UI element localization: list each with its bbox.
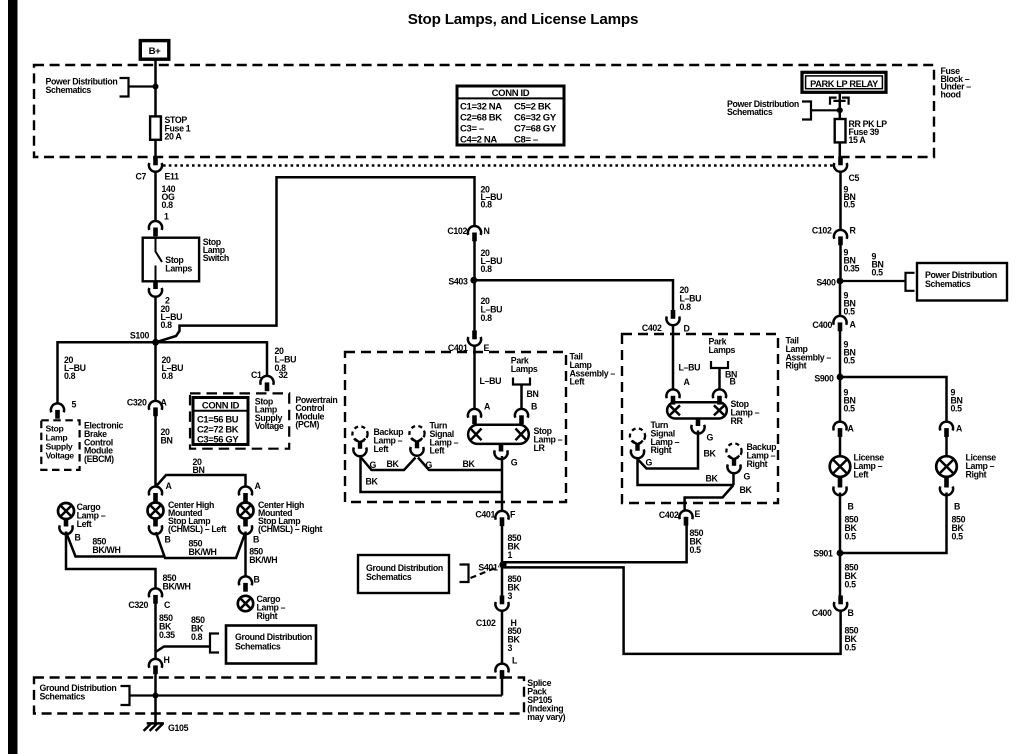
- svg-text:D: D: [684, 324, 690, 334]
- svg-text:BK: BK: [740, 485, 753, 495]
- wire C400 A to S900: [839, 331, 842, 377]
- connector pin 2: [149, 288, 162, 297]
- stop lamp RR ground stub: [696, 419, 701, 427]
- svg-text:S100: S100: [130, 331, 150, 341]
- svg-text:C402: C402: [659, 510, 679, 520]
- svg-text:850BK0.5: 850BK0.5: [952, 515, 966, 542]
- svg-text:BK: BK: [463, 459, 476, 469]
- turn signal lamp right (dashed): [630, 428, 645, 458]
- splice S400: [837, 278, 844, 285]
- svg-text:E11: E11: [165, 172, 180, 182]
- connector B CHMSL right: [239, 525, 252, 534]
- svg-text:C1=32 NAC2=68 BKC3= –C4=2 NA: C1=32 NAC2=68 BKC3= –C4=2 NA: [460, 102, 502, 146]
- wire park lamps to stop lamp B: [520, 385, 523, 410]
- svg-text:850BK3: 850BK3: [508, 574, 522, 601]
- lamp license left: [830, 456, 851, 477]
- svg-text:850BK3: 850BK3: [508, 626, 522, 653]
- wire ground bus to C402 E: [685, 485, 734, 511]
- park lamps feed bracket (left box): [513, 378, 530, 385]
- wire S100 to C102 N: [156, 177, 475, 342]
- svg-text:StopLamp –LR: StopLamp –LR: [534, 426, 563, 453]
- wire license right B to S901: [840, 493, 947, 554]
- connector C5: [834, 157, 847, 172]
- svg-text:CONN ID: CONN ID: [492, 88, 530, 99]
- svg-text:20L–BU0.8: 20L–BU0.8: [481, 185, 503, 210]
- svg-text:Center HighMountedStop Lamp(CH: Center HighMountedStop Lamp(CHMSL) – Lef…: [168, 500, 227, 534]
- wire A to license right lamp: [945, 437, 948, 457]
- svg-text:G105: G105: [168, 723, 189, 733]
- svg-text:L–BU: L–BU: [480, 376, 502, 386]
- svg-text:20L–BU0.8: 20L–BU0.8: [275, 346, 297, 373]
- svg-text:StopLamps: StopLamps: [165, 255, 192, 273]
- connector A CHMSL right: [239, 487, 252, 502]
- fuse RR PK LP Fuse 39 15A: [835, 119, 846, 142]
- svg-text:A: A: [956, 424, 963, 434]
- svg-text:F: F: [510, 510, 516, 520]
- svg-text:B: B: [954, 502, 960, 512]
- svg-text:A: A: [255, 481, 262, 491]
- dashed leader S401 to bracket: [471, 567, 500, 579]
- PCM CONN ID table: [193, 398, 248, 445]
- svg-text:5: 5: [72, 400, 77, 410]
- connector B cargo right: [239, 576, 252, 591]
- PCM dashed box: [190, 393, 289, 448]
- wire park lamps to stop lamp B: [718, 368, 721, 390]
- svg-text:BK: BK: [387, 459, 400, 469]
- connector B cargo left: [59, 525, 72, 534]
- svg-text:9BN0.5: 9BN0.5: [951, 388, 963, 414]
- svg-text:Power DistributionSchematics: Power DistributionSchematics: [727, 99, 799, 117]
- connector C401 E: [468, 331, 481, 346]
- wire S900 to license left A: [839, 377, 842, 422]
- svg-text:StopLampSupplyVoltage: StopLampSupplyVoltage: [46, 424, 75, 461]
- wire C102 N to S403: [473, 241, 476, 280]
- CONN ID table (underhood fuse block): [457, 86, 564, 146]
- svg-text:20BN: 20BN: [193, 457, 205, 475]
- svg-text:Ground DistributionSchematics: Ground DistributionSchematics: [235, 632, 312, 651]
- svg-text:A: A: [684, 377, 691, 387]
- wire S100 to EBCM pin 5: [58, 342, 156, 404]
- svg-text:1: 1: [164, 212, 169, 222]
- svg-text:850BK0.5: 850BK0.5: [690, 528, 704, 555]
- fuse block underhood dashed box: [34, 65, 934, 157]
- splice S403: [470, 277, 477, 284]
- svg-text:850BK0.5: 850BK0.5: [845, 563, 859, 590]
- connector C102 H: [495, 596, 508, 611]
- svg-text:20L–BU0.8: 20L–BU0.8: [680, 285, 702, 312]
- ground G105 symbol: [144, 723, 164, 731]
- wire C102 H to splice pack L: [501, 611, 504, 665]
- wire C320 C to H: [154, 604, 157, 660]
- svg-text:20L–BU0.8: 20L–BU0.8: [162, 355, 184, 381]
- stop lamp RR dual filament lamp: [667, 402, 727, 418]
- svg-text:9BN0.5: 9BN0.5: [844, 185, 856, 210]
- wire A to license left lamp: [839, 437, 842, 457]
- connector A stop lamp RR: [666, 389, 679, 404]
- connector pin 5 (EBCM): [51, 403, 64, 418]
- junction dot on relay feed: [837, 107, 843, 113]
- lamp license right: [936, 456, 957, 477]
- splice S901: [837, 550, 844, 557]
- wire S403 to C402 D: [474, 280, 673, 310]
- svg-text:850BK0.8: 850BK0.8: [191, 615, 205, 642]
- wire CHMSL left B to CHMSL right B bus: [156, 532, 246, 558]
- svg-text:TailLampAssembly –Right: TailLampAssembly –Right: [786, 336, 832, 371]
- svg-text:S400: S400: [816, 278, 836, 288]
- wire S901 to C400 B: [839, 553, 842, 596]
- turn signal lamp left (dashed): [409, 426, 424, 456]
- branch to ground distribution bracket: [156, 647, 211, 653]
- svg-text:BK: BK: [704, 449, 717, 459]
- connector C320 C: [149, 588, 162, 603]
- bracket ground distribution (mid): [210, 634, 219, 653]
- wire C402 E to S401 bus: [503, 526, 687, 563]
- switch pin 2 stub: [153, 281, 158, 289]
- wire H to G105: [154, 673, 157, 723]
- stop lamp switch blade: [156, 238, 163, 281]
- svg-text:C320: C320: [127, 398, 147, 408]
- wire stop G to C401 F: [501, 456, 504, 512]
- svg-text:TurnSignalLamp –Left: TurnSignalLamp –Left: [430, 421, 459, 456]
- svg-text:C5=2 BKC6=32 GYC7=68 GYC8= –: C5=2 BKC6=32 GYC7=68 GYC8= –: [514, 102, 557, 146]
- svg-text:BackupLamp –Left: BackupLamp –Left: [374, 427, 405, 454]
- junction dot G105 bus: [153, 693, 159, 699]
- svg-text:850BK0.35: 850BK0.35: [159, 613, 175, 640]
- connector C400 A: [833, 316, 846, 331]
- wire C320 A to CHMSL lamps: [156, 416, 246, 487]
- svg-text:N: N: [484, 226, 490, 236]
- tail lamp assembly left dashed box: [345, 352, 566, 502]
- wire cargo left B to ground bus: [66, 532, 165, 557]
- svg-text:R: R: [850, 226, 857, 236]
- svg-text:850BK1: 850BK1: [508, 533, 522, 560]
- svg-text:A: A: [161, 398, 168, 408]
- svg-text:B: B: [253, 535, 259, 545]
- svg-text:850BK/WH: 850BK/WH: [189, 539, 217, 558]
- svg-text:B: B: [254, 575, 260, 585]
- junction dot on B+ feed: [153, 84, 159, 90]
- svg-text:B: B: [75, 533, 81, 543]
- svg-text:20L–BU0.8: 20L–BU0.8: [64, 355, 86, 381]
- svg-text:850BK/WH: 850BK/WH: [163, 573, 191, 591]
- svg-text:C102: C102: [476, 618, 496, 628]
- connector C401 F: [495, 511, 508, 526]
- svg-text:ParkLamps: ParkLamps: [511, 356, 538, 374]
- svg-text:140OG0.8: 140OG0.8: [162, 184, 176, 210]
- bracket ground distribution (bottom): [121, 686, 130, 705]
- svg-text:Stop Lamps, and License Lamps: Stop Lamps, and License Lamps: [408, 11, 639, 28]
- relay pin terminals: [830, 98, 849, 105]
- svg-text:B: B: [531, 402, 537, 412]
- svg-text:C102: C102: [447, 226, 467, 236]
- svg-text:G: G: [511, 458, 518, 468]
- wire backup G to turn G (left box): [361, 458, 416, 471]
- CHMSL right lower stub: [243, 519, 248, 527]
- svg-text:Power DistributionSchematics: Power DistributionSchematics: [46, 77, 118, 95]
- svg-text:ElectronicBrakeControlModule(E: ElectronicBrakeControlModule(EBCM): [84, 421, 123, 465]
- ground distribution schematics box (mid): [226, 626, 316, 664]
- lamp CHMSL left: [148, 503, 164, 519]
- svg-text:S401: S401: [478, 563, 498, 573]
- svg-text:E: E: [484, 343, 490, 353]
- wire backup G to C401 F bus: [361, 456, 503, 492]
- svg-text:G: G: [707, 433, 714, 443]
- svg-text:E: E: [695, 509, 701, 519]
- backup lamp left (dashed): [352, 426, 367, 456]
- svg-text:ParkLamps: ParkLamps: [709, 337, 736, 355]
- park lamps feed bracket (right box): [711, 361, 728, 368]
- svg-text:9BN0.35: 9BN0.35: [844, 248, 860, 274]
- wire backup G down (right box): [732, 473, 735, 485]
- wire C401 F to S401: [501, 526, 504, 565]
- connector A license left: [833, 422, 846, 437]
- svg-text:BK: BK: [706, 474, 719, 484]
- connector B license right: [940, 486, 953, 495]
- connector C402 D: [666, 310, 679, 325]
- connector C102 N: [468, 226, 481, 241]
- svg-text:LicenseLamp –Right: LicenseLamp –Right: [966, 453, 997, 480]
- svg-text:StopLampSupplyVoltage: StopLampSupplyVoltage: [255, 397, 284, 432]
- svg-text:C1: C1: [251, 370, 262, 380]
- connector C7/E11: [149, 157, 162, 172]
- svg-text:G: G: [744, 472, 751, 482]
- svg-text:32: 32: [279, 370, 289, 380]
- connector G stop lamp RR: [691, 425, 704, 434]
- svg-text:850BK/WH: 850BK/WH: [249, 547, 277, 566]
- svg-text:PowertrainControlModule(PCM): PowertrainControlModule(PCM): [295, 395, 337, 430]
- CHMSL left lower stub: [153, 519, 158, 527]
- wire C5 to C102 R: [839, 172, 842, 231]
- wire license left B to S901: [839, 493, 842, 554]
- connector A stop lamp LR: [468, 409, 481, 424]
- lamp cargo left: [58, 503, 74, 519]
- connector C102 R: [834, 230, 847, 245]
- wire splice pack riser: [501, 678, 504, 696]
- cargo left lower stub: [64, 519, 69, 527]
- connector B stop lamp RR: [713, 389, 726, 404]
- svg-text:9BN0.5: 9BN0.5: [844, 388, 856, 414]
- svg-text:C400: C400: [812, 320, 832, 330]
- connector B stop lamp LR: [515, 409, 528, 424]
- wire CHMSL right B to cargo right B: [244, 532, 247, 578]
- license right lower stub: [944, 477, 949, 488]
- svg-text:C1=56 BUC2=72 BKC3=56 GY: C1=56 BUC2=72 BKC3=56 GY: [197, 413, 239, 444]
- connector C400 B: [834, 596, 847, 611]
- connector C320 A: [149, 401, 162, 416]
- stop lamp LR dual filament lamp: [468, 425, 529, 444]
- svg-text:A: A: [848, 424, 855, 434]
- connector A CHMSL left: [149, 487, 162, 502]
- svg-text:C320: C320: [128, 600, 148, 610]
- svg-text:PARK LP RELAY: PARK LP RELAY: [810, 79, 878, 89]
- wire S400 to C400 A: [839, 281, 842, 317]
- svg-text:850BK0.5: 850BK0.5: [845, 626, 859, 653]
- svg-text:A: A: [850, 320, 857, 330]
- svg-text:850BK0.5: 850BK0.5: [845, 515, 859, 542]
- stop lamp LR ground stub: [499, 444, 504, 452]
- svg-text:20BN: 20BN: [161, 427, 173, 445]
- svg-text:CargoLamp –Right: CargoLamp –Right: [257, 594, 286, 621]
- svg-text:C5: C5: [849, 173, 860, 183]
- svg-text:BK: BK: [366, 477, 379, 487]
- connector A license right: [940, 422, 953, 437]
- wire bracket to B+ feed: [129, 85, 156, 87]
- svg-text:LicenseLamp –Left: LicenseLamp –Left: [854, 453, 885, 480]
- svg-text:RR PK LPFuse 3915 A: RR PK LPFuse 3915 A: [849, 119, 888, 145]
- svg-text:StopLamp –RR: StopLamp –RR: [731, 399, 760, 426]
- splice S100: [152, 339, 159, 346]
- wire C102 R to S400: [839, 245, 842, 281]
- svg-text:C400: C400: [812, 608, 832, 618]
- svg-text:9BN0.5: 9BN0.5: [872, 252, 884, 278]
- lamp cargo right: [238, 596, 253, 611]
- bracket power distribution schematics (relay): [802, 102, 811, 120]
- wire turn G down (right box): [638, 460, 734, 486]
- svg-text:9BN0.5: 9BN0.5: [844, 291, 856, 317]
- connector L (splice pack): [495, 664, 508, 679]
- connector B license left: [833, 486, 846, 495]
- svg-text:FuseBlock –Under –hood: FuseBlock –Under –hood: [941, 66, 972, 99]
- fuse STOP Fuse 1 20A: [150, 116, 161, 139]
- connector C1 pin 32 (PCM): [260, 376, 273, 391]
- svg-text:TailLampAssembly –Left: TailLampAssembly –Left: [570, 352, 616, 387]
- svg-text:C: C: [164, 600, 171, 610]
- svg-text:L–BU: L–BU: [679, 363, 701, 373]
- svg-text:B+: B+: [149, 46, 162, 57]
- ground distribution dashed box (bottom): [34, 678, 524, 714]
- wire bracket to relay feed: [811, 109, 840, 111]
- svg-text:B: B: [730, 377, 736, 387]
- wire turn G to stop G (left box): [418, 458, 502, 471]
- svg-text:G: G: [646, 458, 653, 468]
- svg-text:A: A: [166, 481, 173, 491]
- wire B+ down to STOP fuse: [154, 59, 157, 116]
- svg-text:CargoLamp –Left: CargoLamp –Left: [77, 502, 106, 529]
- backup lamp right (dashed): [726, 443, 741, 473]
- bracket power distribution schematics (top left): [120, 78, 129, 97]
- bracket ground distribution (S401): [460, 565, 469, 583]
- svg-text:CONN ID: CONN ID: [202, 399, 240, 410]
- wire pin 2 to S100: [154, 297, 157, 343]
- wire S100 to PCM C1 pin 32: [156, 342, 267, 376]
- svg-text:Ground DistributionSchematics: Ground DistributionSchematics: [40, 683, 117, 701]
- connector G stop lamp LR: [494, 450, 507, 459]
- svg-text:B: B: [848, 502, 854, 512]
- svg-text:BackupLamp –Right: BackupLamp –Right: [747, 442, 778, 469]
- stop lamp switch box: [143, 238, 199, 282]
- svg-text:C102: C102: [812, 226, 832, 236]
- svg-text:STOPFuse 120 A: STOPFuse 120 A: [165, 115, 191, 142]
- connector pin 1 of stop lamp switch: [149, 221, 162, 236]
- svg-text:Power DistributionSchematics: Power DistributionSchematics: [925, 270, 997, 289]
- ground bus drop to C320 C: [66, 532, 156, 590]
- svg-text:Ground DistributionSchematics: Ground DistributionSchematics: [366, 563, 443, 582]
- svg-text:850BK/WH: 850BK/WH: [92, 537, 120, 556]
- ground bus wire in splice pack: [130, 694, 503, 696]
- battery feed B+ box: [140, 41, 169, 60]
- wire stop G to turn G (right box): [638, 431, 698, 469]
- svg-text:C7: C7: [135, 172, 146, 182]
- svg-text:C401: C401: [475, 510, 495, 520]
- wire C401 E to stop lamp A: [473, 346, 476, 410]
- dotted fuse block interface line: [163, 164, 834, 166]
- wire S100 to C320 A: [154, 342, 157, 401]
- connector H (C320): [149, 659, 162, 674]
- connector B CHMSL left: [149, 525, 162, 534]
- EBCM stop lamp supply voltage dashed box: [41, 420, 79, 470]
- svg-text:H: H: [164, 655, 170, 665]
- license left lower stub: [838, 477, 843, 488]
- wire STOP fuse to connector C7: [154, 140, 157, 157]
- svg-text:C402: C402: [642, 323, 662, 333]
- bracket power distribution (S400): [906, 273, 915, 291]
- wire S401 to C400 B bus: [503, 567, 841, 654]
- svg-text:S403: S403: [448, 276, 468, 286]
- svg-text:StopLampSwitch: StopLampSwitch: [203, 237, 229, 263]
- splice S900: [837, 374, 844, 381]
- svg-text:B: B: [848, 608, 854, 618]
- wire fuse 39 to connector C5: [839, 142, 842, 157]
- connector C402 E: [679, 510, 692, 525]
- svg-text:SplicePackSP105(Indexingmay va: SplicePackSP105(Indexingmay vary): [527, 678, 565, 722]
- svg-text:A: A: [484, 402, 491, 412]
- wire S400 to power distribution bracket: [840, 280, 906, 282]
- wire C7 to switch pin 1: [154, 172, 157, 222]
- power distribution schematics box (S400): [917, 263, 1007, 301]
- wire C402 D to stop lamp A: [672, 325, 675, 390]
- wire S403 to C401 E: [473, 280, 476, 331]
- svg-text:S900: S900: [814, 374, 834, 384]
- splice S401: [499, 561, 506, 568]
- lamp CHMSL right: [238, 503, 254, 519]
- PARK LP RELAY box: [802, 72, 886, 92]
- svg-text:BN: BN: [527, 389, 539, 399]
- svg-text:20L–BU0.8: 20L–BU0.8: [481, 248, 503, 274]
- svg-text:9BN0.5: 9BN0.5: [844, 340, 856, 366]
- ground distribution schematics box (S401): [358, 555, 449, 593]
- wire S900 to license right: [840, 377, 947, 422]
- wire S401 to C102 H: [501, 565, 504, 596]
- svg-text:TurnSignalLamp –Right: TurnSignalLamp –Right: [651, 420, 680, 455]
- svg-text:Center HighMountedStop Lamp(CH: Center HighMountedStop Lamp(CHMSL) – Rig…: [258, 500, 323, 534]
- svg-text:20L–BU0.8: 20L–BU0.8: [481, 296, 503, 323]
- svg-text:S901: S901: [813, 549, 833, 559]
- svg-text:B: B: [165, 535, 171, 545]
- wire relay to fuse 39: [839, 93, 842, 120]
- svg-text:L: L: [512, 656, 518, 666]
- tail lamp assembly right dashed box: [622, 334, 778, 503]
